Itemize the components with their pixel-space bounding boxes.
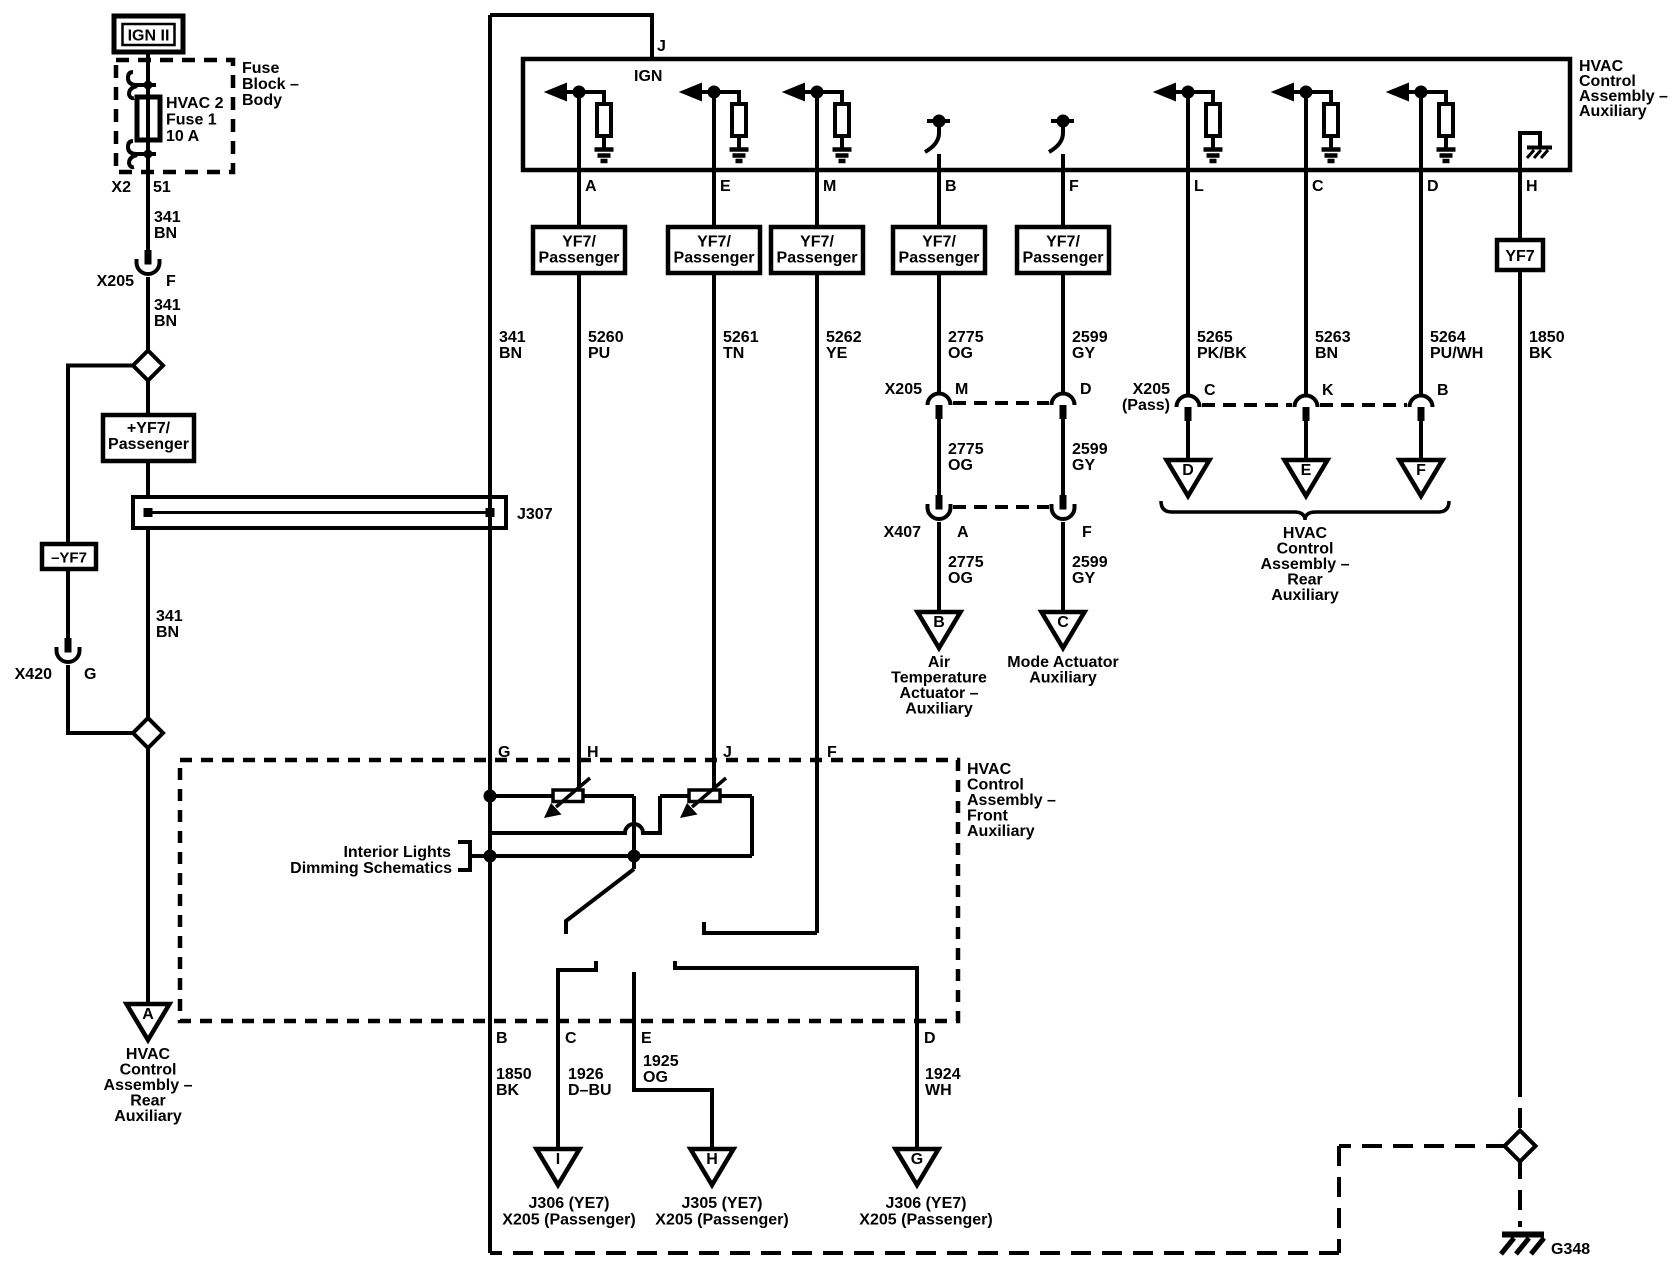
svg-text:Assembly –: Assembly – (104, 1077, 193, 1094)
wire loop2 right edge (750, 796, 754, 856)
svg-text:1850: 1850 (1529, 329, 1565, 346)
wire main down (146, 381, 150, 1005)
svg-text:Auxiliary: Auxiliary (114, 1108, 182, 1125)
ground (730, 147, 749, 152)
svg-text:J307: J307 (517, 506, 553, 523)
ground (1204, 147, 1223, 152)
svg-text:HVAC 2: HVAC 2 (166, 95, 224, 112)
svg-text:Passenger: Passenger (674, 250, 755, 267)
signal arrow A (549, 86, 565, 99)
resistor D (1439, 104, 1453, 136)
node E junction (710, 88, 719, 97)
ground (833, 147, 852, 152)
svg-text:Passenger: Passenger (108, 436, 189, 453)
svg-text:IGN II: IGN II (128, 28, 170, 45)
svg-text:B: B (945, 178, 957, 195)
signal arrow C (1276, 86, 1292, 99)
svg-text:Temperature: Temperature (891, 670, 987, 687)
svg-text:H: H (587, 744, 599, 761)
wire dashed diamond to G348 (1518, 1159, 1522, 1227)
svg-text:B: B (933, 614, 945, 631)
switch contact C (558, 961, 596, 1149)
svg-text:5263: 5263 (1315, 329, 1351, 346)
svg-text:M: M (955, 381, 968, 398)
wire interior lights dimming (470, 854, 752, 858)
svg-text:G348: G348 (1551, 1241, 1590, 1258)
switch contact D (675, 961, 917, 1149)
svg-text:10 A: 10 A (166, 128, 200, 145)
svg-text:Fuse: Fuse (242, 60, 279, 77)
wire pin A down (577, 92, 581, 790)
svg-text:PU: PU (588, 345, 610, 362)
svg-text:M: M (823, 178, 836, 195)
off-page triangle C mode actuator (1042, 612, 1085, 648)
wire 2775 OG (937, 419, 941, 495)
wire loop1 top edge (490, 794, 634, 798)
svg-text:YE: YE (826, 345, 848, 362)
svg-text:B: B (1437, 382, 1449, 399)
svg-text:5260: 5260 (588, 329, 624, 346)
connector X205 Pass C (1177, 396, 1200, 408)
wire pin L down (1186, 92, 1190, 395)
svg-text:OG: OG (643, 1069, 668, 1086)
svg-text:X205 (Passenger): X205 (Passenger) (655, 1212, 788, 1229)
svg-text:X205 (Passenger): X205 (Passenger) (502, 1212, 635, 1229)
svg-text:1926: 1926 (568, 1066, 604, 1083)
wire pin H down (1518, 170, 1522, 1077)
splice bus J307 (133, 497, 506, 528)
svg-text:X205: X205 (885, 381, 922, 398)
wire loop2 top edge (660, 794, 752, 798)
svg-text:G: G (84, 666, 96, 683)
svg-text:J306 (YE7): J306 (YE7) (529, 1195, 610, 1212)
svg-text:2599: 2599 (1072, 329, 1108, 346)
svg-text:GY: GY (1072, 345, 1095, 362)
wire (1061, 154, 1065, 170)
svg-text:GY: GY (1072, 570, 1095, 587)
svg-text:341: 341 (154, 297, 181, 314)
connector code box A (YF7/Passenger) (533, 227, 625, 273)
svg-text:HVAC: HVAC (1283, 525, 1328, 542)
svg-text:BN: BN (154, 225, 177, 242)
wire 2775 OG (937, 522, 941, 612)
wire J route from node to HVAC aux box (490, 15, 652, 59)
internal ground at pin H (1520, 133, 1540, 170)
svg-text:X2: X2 (111, 179, 131, 196)
wire down to splice (146, 277, 150, 351)
svg-text:G: G (911, 1151, 923, 1168)
svg-text:Mode Actuator: Mode Actuator (1007, 654, 1118, 671)
off-page triangle B air temp actuator (918, 612, 961, 648)
connector X205 D (1052, 394, 1075, 406)
svg-text:5265: 5265 (1197, 329, 1233, 346)
svg-text:HVAC: HVAC (126, 1046, 171, 1063)
svg-text:Auxiliary: Auxiliary (905, 701, 973, 718)
svg-text:PU/WH: PU/WH (1430, 345, 1483, 362)
wire dashed 1850 BK to ground (1518, 1077, 1522, 1133)
wire (1419, 421, 1423, 460)
box HVAC Control Assembly - Front Auxiliary (dashed) (180, 760, 958, 1021)
ground (1322, 147, 1341, 152)
fuse HVAC 2 Fuse 1 10A (137, 97, 160, 140)
connector code box B (YF7/Passenger) (893, 227, 985, 273)
svg-text:F: F (1069, 178, 1079, 195)
node L junction (1184, 88, 1193, 97)
svg-text:HVAC: HVAC (967, 761, 1012, 778)
svg-text:OG: OG (948, 345, 973, 362)
svg-text:Auxiliary: Auxiliary (1579, 103, 1647, 120)
connector X205 Pass B (1410, 396, 1433, 408)
ground (1437, 147, 1456, 152)
svg-text:Interior Lights: Interior Lights (343, 844, 451, 861)
power feed box IGN II (114, 16, 183, 52)
splice diamond upper (133, 351, 163, 381)
svg-text:GY: GY (1072, 457, 1095, 474)
node junction wiper line (630, 852, 639, 861)
wire pin E down (712, 92, 716, 790)
svg-text:OG: OG (948, 570, 973, 587)
svg-text:Dimming Schematics: Dimming Schematics (290, 860, 452, 877)
svg-text:Rear: Rear (1287, 572, 1323, 589)
wire (1304, 421, 1308, 460)
svg-text:1850: 1850 (496, 1066, 532, 1083)
svg-text:Body: Body (242, 92, 282, 109)
svg-text:TN: TN (723, 345, 744, 362)
splice diamond ground (1505, 1131, 1536, 1162)
node C junction (1302, 88, 1311, 97)
svg-text:Auxiliary: Auxiliary (967, 823, 1035, 840)
svg-text:Fuse 1: Fuse 1 (166, 112, 217, 129)
svg-text:YF7/: YF7/ (562, 234, 596, 251)
wire loop1 bottom edge with hop (490, 796, 660, 833)
svg-text:2599: 2599 (1072, 441, 1108, 458)
svg-text:K: K (1322, 382, 1334, 399)
svg-text:F: F (1082, 524, 1092, 541)
brace rear auxiliary (1161, 501, 1449, 520)
svg-text:Passenger: Passenger (899, 250, 980, 267)
svg-text:X420: X420 (15, 666, 52, 683)
svg-text:Front: Front (967, 808, 1009, 825)
svg-text:OG: OG (948, 457, 973, 474)
connector code box YF7 (H) (1497, 240, 1543, 270)
svg-text:A: A (957, 524, 969, 541)
svg-text:+YF7/: +YF7/ (127, 420, 171, 437)
potentiometer 1 (553, 790, 583, 802)
svg-text:(Pass): (Pass) (1122, 397, 1170, 414)
svg-text:C: C (1204, 382, 1216, 399)
svg-text:Control: Control (967, 777, 1024, 794)
svg-text:Passenger: Passenger (1023, 250, 1104, 267)
wire G / 341 BN main vertical (488, 15, 492, 1253)
wire (937, 154, 941, 170)
wire (1186, 421, 1190, 460)
svg-text:Control: Control (120, 1062, 177, 1079)
off-page triangle H J305 (691, 1149, 734, 1185)
svg-text:2775: 2775 (948, 554, 984, 571)
wire branch to lower splice (68, 665, 133, 733)
svg-text:D: D (1182, 462, 1194, 479)
svg-text:Control: Control (1277, 541, 1334, 558)
signal arrow E (684, 86, 700, 99)
switch wiper blade (566, 869, 634, 934)
svg-text:Actuator –: Actuator – (899, 685, 978, 702)
svg-text:F: F (1416, 462, 1426, 479)
svg-text:2599: 2599 (1072, 554, 1108, 571)
svg-text:C: C (1057, 614, 1069, 631)
signal arrow D (1391, 86, 1407, 99)
splice diamond lower (133, 718, 163, 748)
resistor L (1206, 104, 1220, 136)
resistor A (597, 104, 611, 136)
svg-text:X205: X205 (1133, 381, 1170, 398)
svg-text:51: 51 (153, 179, 171, 196)
svg-text:YF7: YF7 (1505, 248, 1534, 265)
off-page triangle I J306 (537, 1149, 580, 1185)
svg-text:BK: BK (496, 1082, 520, 1099)
wire pin F down (1061, 154, 1065, 393)
fuse clip lower (128, 141, 137, 154)
wire branch left (68, 366, 133, 639)
node loop1 top-left junction (486, 792, 495, 801)
wire (602, 136, 606, 148)
svg-text:YF7/: YF7/ (1046, 234, 1080, 251)
wire (817, 92, 842, 104)
connector code box M (YF7/Passenger) (771, 227, 863, 273)
connector X205 F (145, 250, 152, 265)
wire IGN II to fuse (146, 52, 150, 250)
node junction G line (486, 852, 495, 861)
potentiometer 2 (689, 790, 720, 802)
wire dashed bottom to pin B wire (490, 1251, 1339, 1255)
svg-text:YF7/: YF7/ (697, 234, 731, 251)
svg-text:X205 (Passenger): X205 (Passenger) (859, 1212, 992, 1229)
svg-text:1925: 1925 (643, 1053, 679, 1070)
off-page triangle A to HVAC rear aux (127, 1004, 170, 1040)
svg-text:Rear: Rear (130, 1093, 166, 1110)
wire 2599 GY (1061, 419, 1065, 495)
svg-text:341: 341 (154, 209, 181, 226)
resistor C (1324, 104, 1338, 136)
svg-text:Passenger: Passenger (777, 250, 858, 267)
svg-text:Block –: Block – (242, 76, 299, 93)
svg-text:B: B (496, 1030, 508, 1047)
bracket interior lights (458, 842, 470, 870)
wire dashed X205 K-B (1320, 403, 1407, 407)
connector X205 Pass K (1295, 396, 1318, 408)
svg-text:C: C (565, 1030, 577, 1047)
wire pin D down (1419, 92, 1423, 395)
wire (737, 136, 741, 148)
svg-text:D: D (924, 1030, 936, 1047)
wire (1421, 92, 1446, 104)
box HVAC Control Assembly - Auxiliary (523, 59, 1570, 170)
svg-text:BN: BN (1315, 345, 1338, 362)
svg-text:2775: 2775 (948, 441, 984, 458)
ground G348 (1502, 1232, 1544, 1238)
wire dashed down (1337, 1146, 1341, 1253)
connector code box E (YF7/Passenger) (668, 227, 760, 273)
wire (840, 136, 844, 148)
off-page triangle G J306 (896, 1149, 939, 1185)
wire dashed to left (1339, 1144, 1506, 1148)
svg-text:A: A (585, 178, 597, 195)
resistor M (835, 104, 849, 136)
switch contact E (634, 972, 712, 1149)
svg-text:D: D (1080, 381, 1092, 398)
wire pin B down (937, 154, 941, 393)
connector X205 M (928, 394, 951, 406)
signal arrow L (1158, 86, 1174, 99)
switch B (927, 119, 950, 123)
wire pin C down (1304, 92, 1308, 395)
svg-text:I: I (556, 1151, 560, 1168)
connector X420 G (65, 638, 72, 653)
wire dashed X407 A-F (953, 505, 1049, 509)
switch contact F (704, 922, 817, 933)
svg-text:Assembly –: Assembly – (1261, 556, 1350, 573)
svg-text:5264: 5264 (1430, 329, 1466, 346)
wire (1306, 92, 1331, 104)
svg-text:2775: 2775 (948, 329, 984, 346)
svg-text:WH: WH (925, 1082, 952, 1099)
resistor E (732, 104, 746, 136)
wire (579, 92, 604, 104)
svg-text:E: E (720, 178, 731, 195)
svg-text:Assembly –: Assembly – (967, 792, 1056, 809)
connector code box +YF7/Passenger (103, 415, 194, 461)
svg-text:E: E (641, 1030, 652, 1047)
wire (1211, 136, 1215, 148)
svg-text:J: J (657, 38, 666, 55)
svg-text:Passenger: Passenger (539, 250, 620, 267)
wire dashed X205 C-K (1202, 403, 1292, 407)
wire pin M down (815, 92, 819, 933)
ground (595, 147, 614, 152)
svg-text:IGN: IGN (634, 68, 662, 85)
off-page triangle E rear aux (1285, 460, 1328, 496)
svg-text:G: G (498, 744, 510, 761)
svg-text:A: A (142, 1006, 154, 1023)
svg-text:J305 (YE7): J305 (YE7) (682, 1195, 763, 1212)
svg-text:D–BU: D–BU (568, 1082, 612, 1099)
svg-text:Air: Air (928, 654, 950, 671)
svg-text:BN: BN (499, 345, 522, 362)
svg-text:5261: 5261 (723, 329, 759, 346)
switch F (1051, 119, 1074, 123)
svg-text:H: H (706, 1151, 718, 1168)
fuse block dashed box (Fuse Block - Body) (116, 60, 233, 172)
svg-text:L: L (1194, 178, 1204, 195)
svg-text:YF7/: YF7/ (922, 234, 956, 251)
wire 2599 GY (1061, 522, 1065, 612)
node A junction (575, 88, 584, 97)
svg-text:Auxiliary: Auxiliary (1029, 670, 1097, 687)
signal arrow M (787, 86, 803, 99)
node D junction (1417, 88, 1426, 97)
svg-text:H: H (1526, 178, 1538, 195)
svg-text:X205: X205 (97, 273, 134, 290)
node M junction (813, 88, 822, 97)
svg-text:C: C (1312, 178, 1324, 195)
svg-text:E: E (1301, 462, 1312, 479)
svg-text:BK: BK (1529, 345, 1553, 362)
connector X407 F (1060, 495, 1067, 510)
svg-text:F: F (166, 273, 176, 290)
svg-text:X407: X407 (884, 524, 921, 541)
wire dashed X205 M-D (953, 401, 1049, 405)
wire wiper common (632, 796, 636, 869)
svg-text:BN: BN (156, 624, 179, 641)
svg-text:341: 341 (156, 608, 183, 625)
connector X407 A (936, 495, 943, 510)
wire (1188, 92, 1213, 104)
svg-text:J: J (723, 744, 732, 761)
svg-text:J306 (YE7): J306 (YE7) (886, 1195, 967, 1212)
svg-text:–YF7: –YF7 (51, 550, 87, 567)
svg-text:F: F (827, 744, 837, 761)
svg-text:YF7/: YF7/ (800, 234, 834, 251)
fuse clip upper (128, 72, 137, 85)
svg-text:Auxiliary: Auxiliary (1271, 587, 1339, 604)
svg-text:5262: 5262 (826, 329, 862, 346)
wire (714, 92, 739, 104)
off-page triangle F rear aux (1400, 460, 1443, 496)
connector code box -YF7 (42, 544, 96, 569)
svg-text:D: D (1427, 178, 1439, 195)
wire (1444, 136, 1448, 148)
svg-text:1924: 1924 (925, 1066, 961, 1083)
connector code box F (YF7/Passenger) (1017, 227, 1109, 273)
wire (1329, 136, 1333, 148)
off-page triangle D rear aux (1167, 460, 1210, 496)
svg-text:PK/BK: PK/BK (1197, 345, 1247, 362)
svg-text:BN: BN (154, 313, 177, 330)
svg-text:341: 341 (499, 329, 526, 346)
